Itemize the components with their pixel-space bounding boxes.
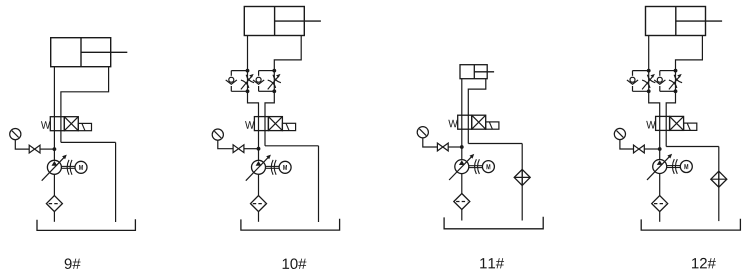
junction dot G4U1 bottom <box>647 89 651 93</box>
pressure gauge PG4 needle <box>617 131 624 138</box>
check valve G4U2 seat <box>654 80 665 84</box>
valve V1 label W <box>41 121 50 129</box>
wire tank return vertical G2 <box>318 146 320 222</box>
wire shut-off to junction G1 <box>40 148 54 150</box>
throttle G2U1 adjust arrow <box>241 76 252 90</box>
throttle G4U1 adjust arrow <box>642 76 653 90</box>
flow-control G2U1 main branch wire <box>247 71 249 92</box>
wire cylinder CYL4 left port to flow-control <box>648 36 650 71</box>
cylinder CYL1 rod <box>81 51 127 53</box>
pressure gauge PG3 dial <box>417 127 428 138</box>
check valve G2U1 seat <box>226 80 237 84</box>
motor M2 letter M <box>283 165 287 170</box>
wire valve V3 A-port through-line down to pump <box>461 115 463 160</box>
flow-control G4U1 main branch wire <box>648 71 650 92</box>
motor M3 letter M <box>487 164 491 169</box>
pressure gauge PG1 needle <box>12 131 19 138</box>
shut-off valve SV1 right triangle <box>35 145 40 153</box>
cylinder CYL4 body <box>646 7 706 36</box>
pump P3 circle <box>455 160 469 174</box>
junction dot G2U1 top <box>246 69 250 73</box>
flow-control G2U1 left branch wire upper <box>230 71 232 76</box>
shut-off valve SV1 left triangle <box>29 145 34 153</box>
wire gauge drop G4 <box>620 140 634 149</box>
wire tank return horizontal G4 <box>666 146 719 148</box>
wire flow-control G4U1 outlet jog to valve A <box>649 91 660 117</box>
wire pump to filter G4 <box>659 174 661 196</box>
pump P4 variable arrow <box>647 155 671 180</box>
wire pump to filter G3 <box>461 174 463 194</box>
pressure gauge PG1 dial <box>10 129 21 140</box>
valve V1 left position square <box>50 117 64 131</box>
flow-control G2U2 left branch wire lower <box>258 86 260 91</box>
wire tank return horizontal G1 <box>61 141 116 143</box>
pressure gauge PG3 needle <box>419 129 426 136</box>
valve V4 crossed-path X stroke 1 <box>670 116 684 130</box>
tank T4 open reservoir <box>641 219 740 230</box>
junction dot G2U2 top <box>272 69 276 73</box>
wire cylinder CYL4 right port jog to flow-control <box>676 36 703 71</box>
pump P3 outlet triangle <box>459 160 465 165</box>
valve V2 left position square <box>254 117 268 131</box>
filter RF4 return through wire <box>718 171 720 187</box>
pressure gauge PG4 dial <box>614 128 625 139</box>
throttle G4U1 restriction arc SE <box>647 75 655 83</box>
valve V2 label W <box>245 121 254 129</box>
shut-off valve SV3 right triangle <box>443 143 448 151</box>
throttle G4U1 restriction arc NW <box>642 80 650 88</box>
wire valve V4 A-port through-line down to pump <box>659 116 661 160</box>
motor M2 coupling arc 1 <box>271 160 273 175</box>
flow-control G4U2 left branch wire upper <box>659 71 661 76</box>
valve V3 crossed-path X stroke 2 <box>472 115 486 129</box>
wire shut-off to junction G2 <box>244 148 259 150</box>
wire valve V2 B-port through-line <box>264 116 266 146</box>
valve V4 solenoid box <box>684 123 697 130</box>
motor M4 shaft lower line <box>667 167 681 169</box>
wire valve V2 A-port through-line down to pump <box>258 116 260 160</box>
wire valve V3 B-port through-line <box>467 115 469 144</box>
flow-control G2U1 loop top wire <box>231 70 247 72</box>
cylinder CYL3 piston <box>473 65 475 79</box>
wire filter to tank G4 <box>659 212 661 222</box>
valve V4 label W <box>646 121 655 129</box>
motor M4 shaft upper line <box>667 165 681 167</box>
flow-control G2U2 main branch wire <box>273 71 275 92</box>
junction dot G2U2 bottom <box>272 89 276 93</box>
cylinder CYL2 piston <box>274 7 276 36</box>
wire pump to filter G1 <box>53 174 55 195</box>
check valve G4U2 ball <box>657 77 662 82</box>
cylinder CYL2 rod <box>275 20 321 22</box>
junction dot G2 pump line <box>257 147 261 151</box>
throttle G2U2 restriction arc SE <box>273 75 281 83</box>
valve V2 right position square <box>268 117 282 131</box>
wire tank return horizontal G2 <box>265 145 319 147</box>
label 11# <box>480 258 504 268</box>
motor M3 coupling arc 1 <box>475 159 477 174</box>
wire filter to tank G3 <box>461 210 463 221</box>
cylinder CYL1 body <box>51 38 111 67</box>
pump P3 variable arrow <box>449 155 473 180</box>
pump P2 variable arrow <box>246 156 270 181</box>
valve V2 solenoid diagonal <box>286 123 289 130</box>
wire flow-control G2U2 outlet jog to valve B <box>265 91 274 117</box>
throttle G4U2 restriction arc NW <box>669 80 677 88</box>
valve V4 right position square <box>670 116 684 130</box>
label 12# <box>692 258 716 268</box>
wire tank return horizontal G3 <box>468 143 522 145</box>
throttle G2U2 restriction arc NW <box>268 80 276 88</box>
filter F2 suction dashed element <box>253 203 264 205</box>
pump P4 circle <box>653 160 667 174</box>
wire flow-control G4U2 outlet jog to valve B <box>666 91 675 117</box>
wire gauge drop G3 <box>423 138 438 147</box>
flow-control G4U2 left branch wire lower <box>659 86 661 91</box>
valve V2 crossed-path X stroke 2 <box>268 117 282 131</box>
flow-control G4U2 main branch wire <box>675 71 677 92</box>
wire valve V1 B-port through-line <box>60 116 62 142</box>
motor M4 letter M <box>684 164 688 169</box>
cylinder CYL3 body <box>460 65 487 79</box>
check valve G2U2 ball <box>256 77 261 82</box>
filter F4 suction diamond <box>652 196 668 212</box>
wire cylinder CYL2 right port jog to flow-control <box>274 36 301 71</box>
motor M3 circle <box>482 161 494 173</box>
motor M3 coupling arc 2 <box>478 159 480 174</box>
valve V2 solenoid box <box>282 123 295 130</box>
motor M2 coupling arc 2 <box>274 160 276 175</box>
filter F1 suction diamond <box>46 196 62 212</box>
wire valve V4 B-port through-line <box>665 116 667 147</box>
wire filter to tank G2 <box>258 212 260 222</box>
flow-control G4U1 left branch wire lower <box>632 86 634 91</box>
valve V3 solenoid diagonal <box>489 122 492 129</box>
flow-control G4U1 left branch wire upper <box>632 71 634 76</box>
wire gauge drop G2 <box>218 140 233 149</box>
junction dot G1 pump line <box>53 147 57 151</box>
pump P2 circle <box>252 160 266 174</box>
filter RF3 return element line <box>514 176 530 178</box>
cylinder CYL1 piston <box>80 38 82 67</box>
pump P2 outlet triangle <box>256 161 262 166</box>
motor M1 letter M <box>79 165 83 170</box>
check valve G4U1 ball <box>630 77 635 82</box>
valve V3 label W <box>448 120 457 128</box>
wire shut-off to junction G3 <box>448 146 462 148</box>
filter F1 suction dashed element <box>49 203 60 205</box>
flow-control G4U2 loop top wire <box>660 70 676 72</box>
valve V4 left position square <box>656 116 670 130</box>
valve V1 crossed-path X stroke 1 <box>64 117 78 131</box>
flow-control G2U2 left branch wire upper <box>258 71 260 76</box>
filter RF3 return through wire <box>521 169 523 185</box>
filter RF4 return diamond <box>711 171 727 187</box>
valve V1 solenoid box <box>78 123 91 130</box>
motor M4 coupling arc 1 <box>672 159 674 174</box>
valve V4 solenoid diagonal <box>687 123 690 130</box>
tank T1 open reservoir <box>37 219 135 230</box>
wire cylinder CYL1 right port jog <box>61 67 109 118</box>
shut-off valve SV2 right triangle <box>239 145 244 153</box>
motor M3 shaft upper line <box>469 165 483 167</box>
filter F3 suction diamond <box>454 194 470 210</box>
filter F4 suction dashed element <box>654 203 665 205</box>
shut-off valve SV3 left triangle <box>437 143 442 151</box>
junction dot G4 pump line <box>658 147 662 151</box>
junction dot G4U1 top <box>647 69 651 73</box>
junction dot G2U1 bottom <box>246 89 250 93</box>
wire gauge drop G1 <box>15 140 29 149</box>
throttle G2U1 restriction arc SE <box>246 75 254 83</box>
pump P1 outlet triangle <box>52 161 58 166</box>
wire shut-off to junction G4 <box>644 148 659 150</box>
cylinder CYL4 rod <box>676 20 722 22</box>
wire tank return vertical G1 <box>115 142 117 222</box>
wire cylinder CYL3 left port to valve <box>461 79 463 116</box>
check valve G2U1 ball <box>229 77 234 82</box>
shut-off valve SV4 right triangle <box>639 145 644 153</box>
motor M2 circle <box>279 161 291 173</box>
wire cylinder CYL3 right port jog <box>468 79 486 116</box>
label 10# <box>283 258 307 269</box>
motor M1 shaft upper line <box>61 165 75 167</box>
motor M1 circle <box>75 161 87 173</box>
filter RF3 return diamond <box>514 169 530 185</box>
wire filter to tank G1 <box>53 212 55 222</box>
filter RF4 return element line <box>711 178 727 180</box>
check valve G4U1 seat <box>627 80 638 84</box>
motor M2 shaft lower line <box>266 167 280 169</box>
valve V1 crossed-path X stroke 2 <box>64 117 78 131</box>
wire pump to filter G2 <box>258 174 260 195</box>
wire tank return vertical G3 <box>521 144 523 221</box>
pressure gauge PG2 needle <box>214 131 221 138</box>
valve V3 crossed-path X stroke 1 <box>472 115 486 129</box>
cylinder CYL3 rod <box>474 71 494 73</box>
flow-control G4U2 loop bottom wire <box>660 90 676 92</box>
pump P1 variable arrow <box>42 156 66 181</box>
tank T2 open reservoir <box>241 219 340 230</box>
pump P1 circle <box>47 160 61 174</box>
wire flow-control G2U1 outlet jog to valve A <box>248 91 259 117</box>
valve V3 solenoid box <box>486 122 499 129</box>
cylinder CYL2 body <box>244 7 304 36</box>
cylinder CYL4 piston <box>675 7 677 36</box>
wire cylinder CYL2 left port to flow-control <box>247 36 249 71</box>
motor M1 shaft lower line <box>61 167 75 169</box>
tank T3 open reservoir <box>444 217 543 229</box>
wire tank return vertical G4 <box>718 147 720 222</box>
label 9# <box>65 258 81 269</box>
flow-control G4U1 loop bottom wire <box>633 90 649 92</box>
flow-control G2U2 loop bottom wire <box>259 90 275 92</box>
motor M4 coupling arc 2 <box>675 159 677 174</box>
valve V2 crossed-path X stroke 1 <box>268 117 282 131</box>
filter F2 suction diamond <box>251 196 267 212</box>
throttle G4U2 restriction arc SE <box>674 75 682 83</box>
flow-control G2U2 loop top wire <box>259 70 275 72</box>
junction dot G4U2 top <box>674 69 678 73</box>
valve V1 solenoid diagonal <box>82 123 85 130</box>
throttle G4U2 adjust arrow <box>669 76 680 90</box>
pressure gauge PG2 dial <box>212 129 223 140</box>
shut-off valve SV2 left triangle <box>233 145 238 153</box>
motor M2 shaft upper line <box>266 165 280 167</box>
flow-control G2U1 left branch wire lower <box>230 86 232 91</box>
wire cylinder CYL1 left port to valve <box>53 67 55 118</box>
motor M3 shaft lower line <box>469 167 483 169</box>
flow-control G4U1 loop top wire <box>633 70 649 72</box>
throttle G2U1 restriction arc NW <box>241 80 249 88</box>
valve V1 right position square <box>64 117 78 131</box>
filter F3 suction dashed element <box>456 201 467 203</box>
throttle G2U2 adjust arrow <box>268 76 279 90</box>
motor M1 coupling arc 1 <box>67 160 69 175</box>
wire valve V1 A-port through-line down to pump <box>53 116 55 160</box>
shut-off valve SV4 left triangle <box>634 145 639 153</box>
check valve G2U2 seat <box>253 80 264 84</box>
valve V4 crossed-path X stroke 2 <box>670 116 684 130</box>
pump P4 outlet triangle <box>657 160 663 165</box>
valve V3 left position square <box>458 115 472 129</box>
junction dot G4U2 bottom <box>674 89 678 93</box>
motor M4 circle <box>680 161 692 173</box>
motor M1 coupling arc 2 <box>70 160 72 175</box>
flow-control G2U1 loop bottom wire <box>231 90 247 92</box>
valve V3 right position square <box>472 115 486 129</box>
junction dot G3 pump line <box>460 145 464 149</box>
